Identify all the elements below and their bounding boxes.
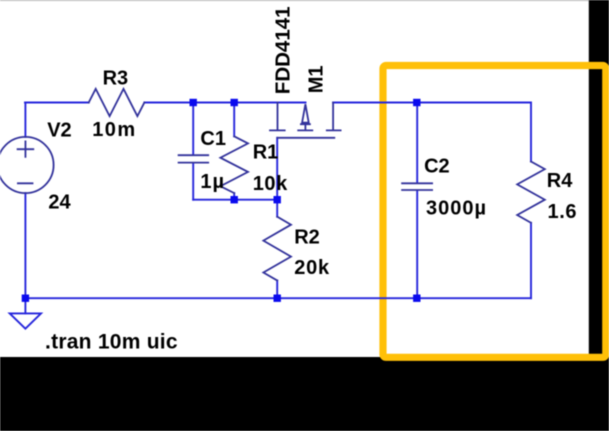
svg-text:M1: M1 xyxy=(306,66,328,94)
svg-text:20k: 20k xyxy=(294,257,330,279)
svg-text:1.6: 1.6 xyxy=(548,201,578,223)
svg-text:R1: R1 xyxy=(253,142,279,164)
svg-text:.tran 10m uic: .tran 10m uic xyxy=(45,331,178,354)
svg-text:R3: R3 xyxy=(103,68,129,90)
svg-text:R4: R4 xyxy=(547,170,573,192)
svg-text:V2: V2 xyxy=(47,120,71,142)
svg-text:C2: C2 xyxy=(424,156,450,178)
svg-text:3000µ: 3000µ xyxy=(426,198,487,220)
svg-text:FDD4141: FDD4141 xyxy=(271,6,294,94)
svg-text:24: 24 xyxy=(48,191,71,213)
svg-text:1µ: 1µ xyxy=(200,171,225,193)
svg-text:C1: C1 xyxy=(200,128,226,150)
svg-text:10k: 10k xyxy=(253,173,288,195)
svg-text:R2: R2 xyxy=(294,227,320,249)
svg-text:10m: 10m xyxy=(92,119,137,141)
